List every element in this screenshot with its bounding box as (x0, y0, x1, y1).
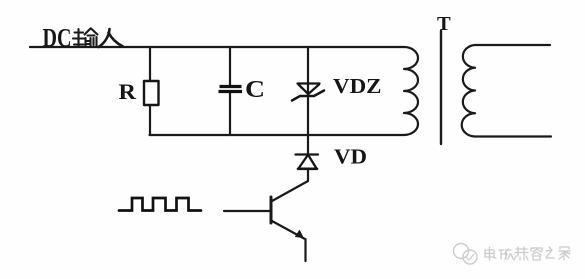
transformer T primary winding (404, 47, 418, 135)
transformer core (440, 31, 442, 144)
wire VD anode to transistor collector (307, 169, 309, 181)
emitter arrowhead (296, 231, 304, 238)
wire C branch vertical (229, 47, 231, 135)
emitter wire down (304, 239, 306, 261)
磁 (499, 249, 513, 259)
zener diode VDZ (292, 84, 324, 101)
svg-text:VDZ: VDZ (333, 74, 382, 98)
diode VD (296, 155, 319, 169)
watermark text 电磁兼容之家 (hand-drawn faint glyphs) (485, 247, 570, 260)
label 输 (hand-drawn glyph) (73, 29, 98, 48)
wire bottom rail (150, 134, 405, 136)
svg-text:DC: DC (43, 24, 72, 53)
resistor R (144, 81, 159, 105)
base bar (270, 197, 273, 223)
svg-text:VD: VD (334, 145, 367, 169)
容 (531, 248, 542, 260)
emitter lead (272, 221, 304, 239)
svg-text:R: R (119, 79, 138, 104)
transistor Q (NPN) (224, 181, 308, 261)
电 (485, 247, 496, 260)
watermark logo (two circles) (454, 244, 478, 265)
家 (559, 247, 570, 260)
wire R branch vertical (149, 47, 151, 135)
svg-text:T: T (437, 13, 451, 35)
transformer T secondary winding with leads (462, 45, 551, 137)
capacitor C plates (219, 87, 243, 92)
wire top rail (DC input bus) (30, 46, 404, 48)
label 入 (hand-drawn glyph) (99, 29, 124, 47)
wire VDZ branch vertical (top rail to VD anode) (307, 47, 309, 154)
square wave drive signal (119, 198, 201, 211)
之 (546, 247, 554, 258)
svg-text:C: C (245, 76, 265, 103)
兼 (514, 247, 528, 260)
base lead wire (224, 210, 270, 212)
collector lead (272, 181, 308, 201)
